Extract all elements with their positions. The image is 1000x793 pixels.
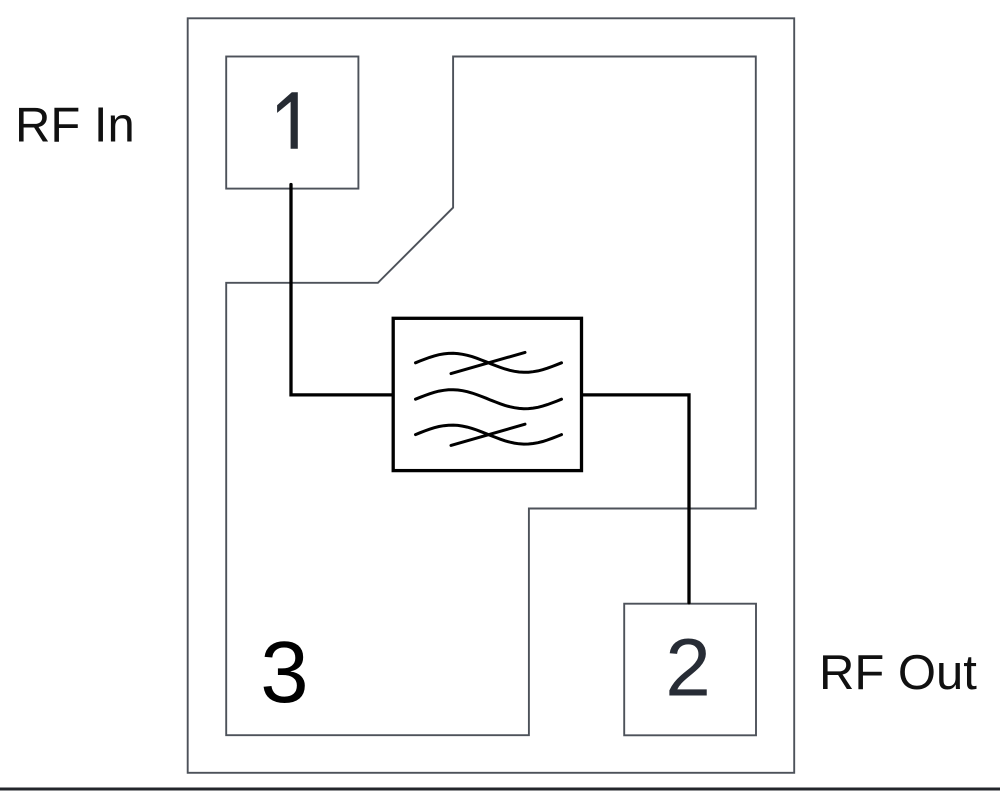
wire filter to port2 <box>581 395 689 603</box>
port box 1 <box>226 57 358 189</box>
outer enclosure rectangle <box>188 18 795 773</box>
svg-text:RF Out: RF Out <box>819 646 977 700</box>
svg-text:2: 2 <box>665 623 711 714</box>
filter wave middle <box>416 390 562 409</box>
band-pass filter U1 box <box>393 318 581 470</box>
filter wave bottom strike-through <box>451 424 525 445</box>
filter wave top strike-through <box>451 352 525 373</box>
wire port1 to filter <box>291 185 395 395</box>
svg-text:3: 3 <box>260 624 308 721</box>
bottom rule <box>0 788 1000 791</box>
node 3 ground-plane polygon <box>226 57 756 736</box>
filter wave bottom <box>416 425 562 444</box>
port box 2 <box>624 604 756 736</box>
filter wave top <box>416 353 562 372</box>
pin label 1 <box>277 92 298 149</box>
svg-text:RF In: RF In <box>15 98 135 152</box>
